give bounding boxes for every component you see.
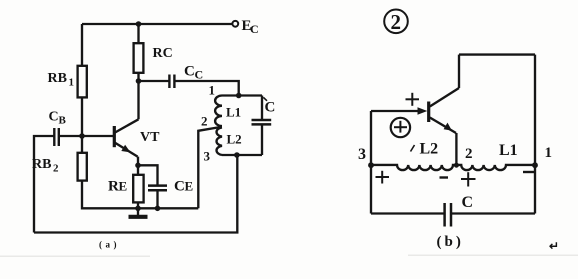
wire collector riser (b): [458, 55, 460, 88]
svg-text:E: E: [119, 179, 128, 194]
capacitor C tank plates: [252, 120, 272, 124]
node 3 junction: [368, 162, 374, 168]
node CE bottom junction: [155, 206, 161, 212]
svg-text:L2: L2: [227, 132, 242, 147]
resistor RB1: [78, 66, 87, 98]
wire tap 2 to riser: [198, 127, 220, 208]
wire RB1 bottom to base node: [81, 97, 83, 136]
svg-text:L1: L1: [226, 105, 241, 120]
svg-text:RB: RB: [48, 71, 67, 86]
svg-text:1: 1: [545, 145, 553, 161]
polarity plus below node 3: [376, 176, 390, 178]
svg-text:1: 1: [209, 83, 216, 98]
capacitor CE plates: [148, 186, 167, 191]
scan artifact faint line right: [408, 255, 578, 257]
wire emitter stub: [137, 157, 139, 166]
wire emitter drop to node 2: [455, 133, 457, 166]
scan artifact faint line left: [0, 256, 150, 258]
wire RC top: [137, 24, 139, 43]
inductor L1 coil: [215, 96, 222, 127]
wire tank top: [222, 94, 262, 96]
wire tank bottom: [222, 154, 262, 156]
ground symbol: [137, 208, 139, 215]
wire tank right top: [261, 96, 263, 120]
wire base (b) with arrow: [371, 110, 421, 112]
wire emitter to CE: [138, 165, 158, 185]
svg-text:E: E: [185, 179, 194, 194]
wire CB left to feedback drop: [34, 136, 54, 233]
svg-text:2: 2: [391, 10, 402, 34]
capacitor CB plates: [54, 128, 59, 146]
svg-text:R: R: [108, 179, 119, 195]
current source circle plus: [391, 118, 410, 137]
node tank bottom junction: [234, 152, 240, 158]
wire CE bottom: [156, 190, 158, 208]
wire bottom rail (b) right: [451, 212, 535, 214]
tick mark before C tank (a): [263, 97, 267, 101]
wire top supply rail (a): [82, 23, 232, 25]
wire RE bottom: [137, 202, 139, 208]
capacitor CC plates: [169, 75, 174, 89]
transistor (b) collector diagonal: [430, 88, 459, 107]
svg-text:B: B: [59, 115, 67, 127]
inductor L1 (b): [456, 165, 535, 170]
wire bottom feedback rail (a): [34, 155, 237, 233]
polarity minus under L2: [440, 176, 449, 178]
svg-text:C: C: [250, 22, 259, 36]
node RE bottom junction: [135, 206, 141, 212]
circled number 2: [384, 9, 408, 33]
svg-text:VT: VT: [140, 130, 160, 145]
svg-text:3: 3: [204, 149, 211, 164]
terminal EC open circle: [232, 21, 238, 27]
node base bias junction: [79, 133, 85, 139]
wire collector riser: [137, 81, 139, 119]
wire tank right bottom: [261, 124, 263, 155]
svg-text:C: C: [462, 194, 474, 211]
node 1 junction: [532, 162, 538, 168]
wire RB2 top: [81, 136, 83, 153]
wire right side (b): [534, 55, 536, 214]
transistor VT emitter diagonal with arrow: [115, 143, 138, 157]
wire CC to tank top: [174, 81, 238, 96]
svg-text:2: 2: [465, 146, 473, 162]
svg-text:(b): (b): [437, 234, 464, 250]
node collector junction: [136, 78, 142, 84]
wire bottom rail (b) left: [371, 212, 445, 214]
transistor VT base bar: [113, 126, 116, 147]
tick mark before L2 (b): [411, 145, 415, 152]
wire RB1 top: [81, 24, 83, 66]
wire left side (b): [370, 111, 372, 214]
capacitor C (b) plates: [445, 203, 451, 227]
svg-text:C: C: [195, 68, 204, 82]
svg-text:3: 3: [358, 146, 366, 163]
svg-text:C: C: [174, 179, 185, 195]
svg-text:1: 1: [69, 77, 75, 89]
wire RB2 bottom to ground rail: [82, 181, 138, 209]
svg-text:L1: L1: [499, 142, 518, 159]
svg-text:L2: L2: [420, 141, 439, 158]
wire emitter ground rail: [138, 207, 198, 209]
inductor L2 coil: [217, 127, 222, 155]
resistor RB2: [78, 153, 87, 181]
svg-text:C: C: [265, 100, 276, 116]
transistor (b) base bar: [427, 102, 430, 123]
svg-text:2: 2: [201, 114, 208, 129]
wire base node to transistor base: [82, 135, 114, 137]
wire RC bottom: [137, 73, 139, 81]
node emitter junction: [135, 163, 141, 169]
node junction top of RC: [136, 21, 142, 27]
node 2 junction: [454, 163, 459, 168]
wire CB to base node: [59, 135, 82, 137]
wire top rail (b): [459, 53, 535, 55]
resistor RE: [133, 175, 143, 203]
polarity minus near node 1: [523, 171, 534, 173]
svg-text:RB: RB: [32, 157, 51, 172]
wire collector to CC: [139, 80, 170, 82]
inductor L2 (b): [371, 165, 456, 170]
polarity plus below node 2: [461, 178, 476, 180]
svg-text:2: 2: [53, 163, 59, 175]
resistor RC: [134, 43, 144, 73]
transistor VT collector diagonal: [115, 119, 139, 132]
svg-text:RC: RC: [153, 46, 173, 61]
svg-text:↵: ↵: [549, 239, 559, 253]
svg-text:C: C: [49, 110, 59, 125]
polarity plus at base (b): [406, 98, 420, 100]
svg-text:(a): (a): [99, 240, 120, 250]
wire RE top: [137, 165, 139, 175]
svg-text:C: C: [184, 64, 195, 80]
transistor (b) emitter diagonal with arrow: [430, 118, 456, 134]
node tank top junction: [236, 93, 242, 99]
